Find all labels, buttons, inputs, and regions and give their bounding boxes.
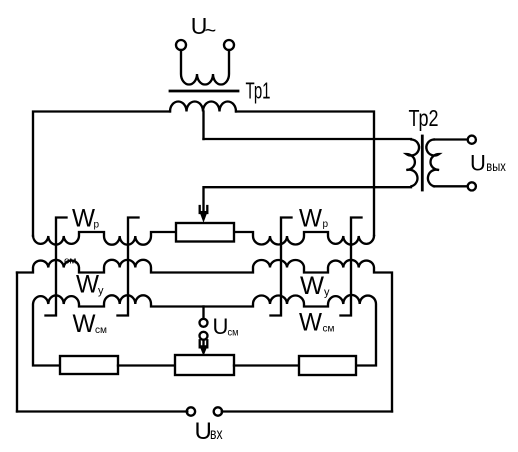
svg-text:р: р [323, 219, 329, 230]
winding Wp right [234, 232, 374, 245]
wire center tap to Tp2 top [204, 138, 412, 140]
svg-text:W: W [76, 271, 99, 299]
label Ucm [213, 314, 239, 339]
label Wp right [299, 205, 329, 233]
winding Wp left [33, 232, 176, 245]
terminal Uvyh top [468, 136, 476, 144]
label Tp2 [409, 105, 439, 131]
resistor R1 [60, 356, 118, 374]
svg-text:U: U [470, 151, 486, 176]
label Wcm left [73, 310, 108, 338]
label Tp1 [246, 78, 271, 104]
wire R2 to R3 [234, 364, 299, 366]
wire Tp2 right bottom [434, 185, 468, 187]
label cm small [64, 256, 77, 266]
svg-text:см: см [323, 324, 335, 335]
terminal Uvyh bottom [468, 182, 476, 190]
label Uvh [195, 418, 223, 445]
wire secondary left end down to Wp left [33, 112, 170, 237]
core 4 [341, 218, 362, 316]
transformer Tp1 secondary winding [170, 102, 236, 112]
wire Tp2 right top [434, 138, 468, 140]
svg-text:вых: вых [486, 158, 506, 174]
wire bottom right [222, 410, 392, 412]
transformer Tp2 right winding [426, 140, 439, 187]
core 1 [46, 218, 67, 316]
svg-text:у: у [98, 285, 104, 297]
core 3 [271, 218, 292, 316]
terminal U~ left [176, 40, 186, 50]
wire left outer vertical [16, 273, 18, 412]
label Wy left [76, 271, 104, 299]
transformer Tp1 core [170, 90, 238, 93]
wire R1 to R2 [118, 364, 175, 366]
label U~ [191, 13, 216, 42]
svg-text:W: W [299, 309, 322, 337]
label Wy right [300, 272, 330, 300]
winding Wcm [33, 295, 376, 366]
transformer Tp1 primary winding [181, 50, 229, 85]
svg-text:вх: вх [210, 426, 223, 443]
core 2 [118, 218, 139, 316]
label Uvyh [470, 151, 506, 176]
Ucm arrow to R2 wiper [199, 340, 208, 356]
transformer Tp2 core [421, 136, 424, 190]
svg-text:W: W [72, 205, 95, 233]
terminal U~ right [224, 40, 234, 50]
wire Tp2 bottom to wiper arrow [204, 187, 412, 212]
label Wcm right [299, 309, 335, 337]
svg-text:р: р [94, 220, 100, 231]
potentiometer P1 [176, 223, 234, 242]
terminal Ucm top [200, 319, 208, 327]
wire center tap down [202, 112, 204, 140]
transformer Tp2 left winding [406, 140, 419, 187]
svg-text:см: см [95, 325, 107, 336]
wire Ucm tap [202, 307, 204, 319]
svg-text:U: U [213, 314, 229, 339]
label Wp left [72, 205, 100, 233]
resistor R3 [299, 356, 356, 375]
svg-text:см: см [228, 328, 239, 339]
svg-text:W: W [300, 272, 324, 300]
wire secondary right end down to Wp right [236, 112, 374, 236]
svg-text:~: ~ [205, 20, 217, 42]
terminal Uvh left [187, 407, 195, 415]
winding Wy with outer loop [17, 260, 392, 412]
svg-text:W: W [73, 310, 96, 338]
terminal Ucm bottom [200, 332, 208, 340]
svg-text:Тр1: Тр1 [246, 78, 271, 104]
terminal Uvh right [214, 407, 222, 415]
wiper arrow onto potentiometer [199, 206, 208, 223]
potentiometer R2 [175, 355, 234, 375]
svg-text:W: W [299, 205, 322, 233]
svg-text:у: у [324, 287, 330, 299]
wire bottom left [17, 410, 187, 412]
svg-text:Тр2: Тр2 [409, 105, 439, 131]
